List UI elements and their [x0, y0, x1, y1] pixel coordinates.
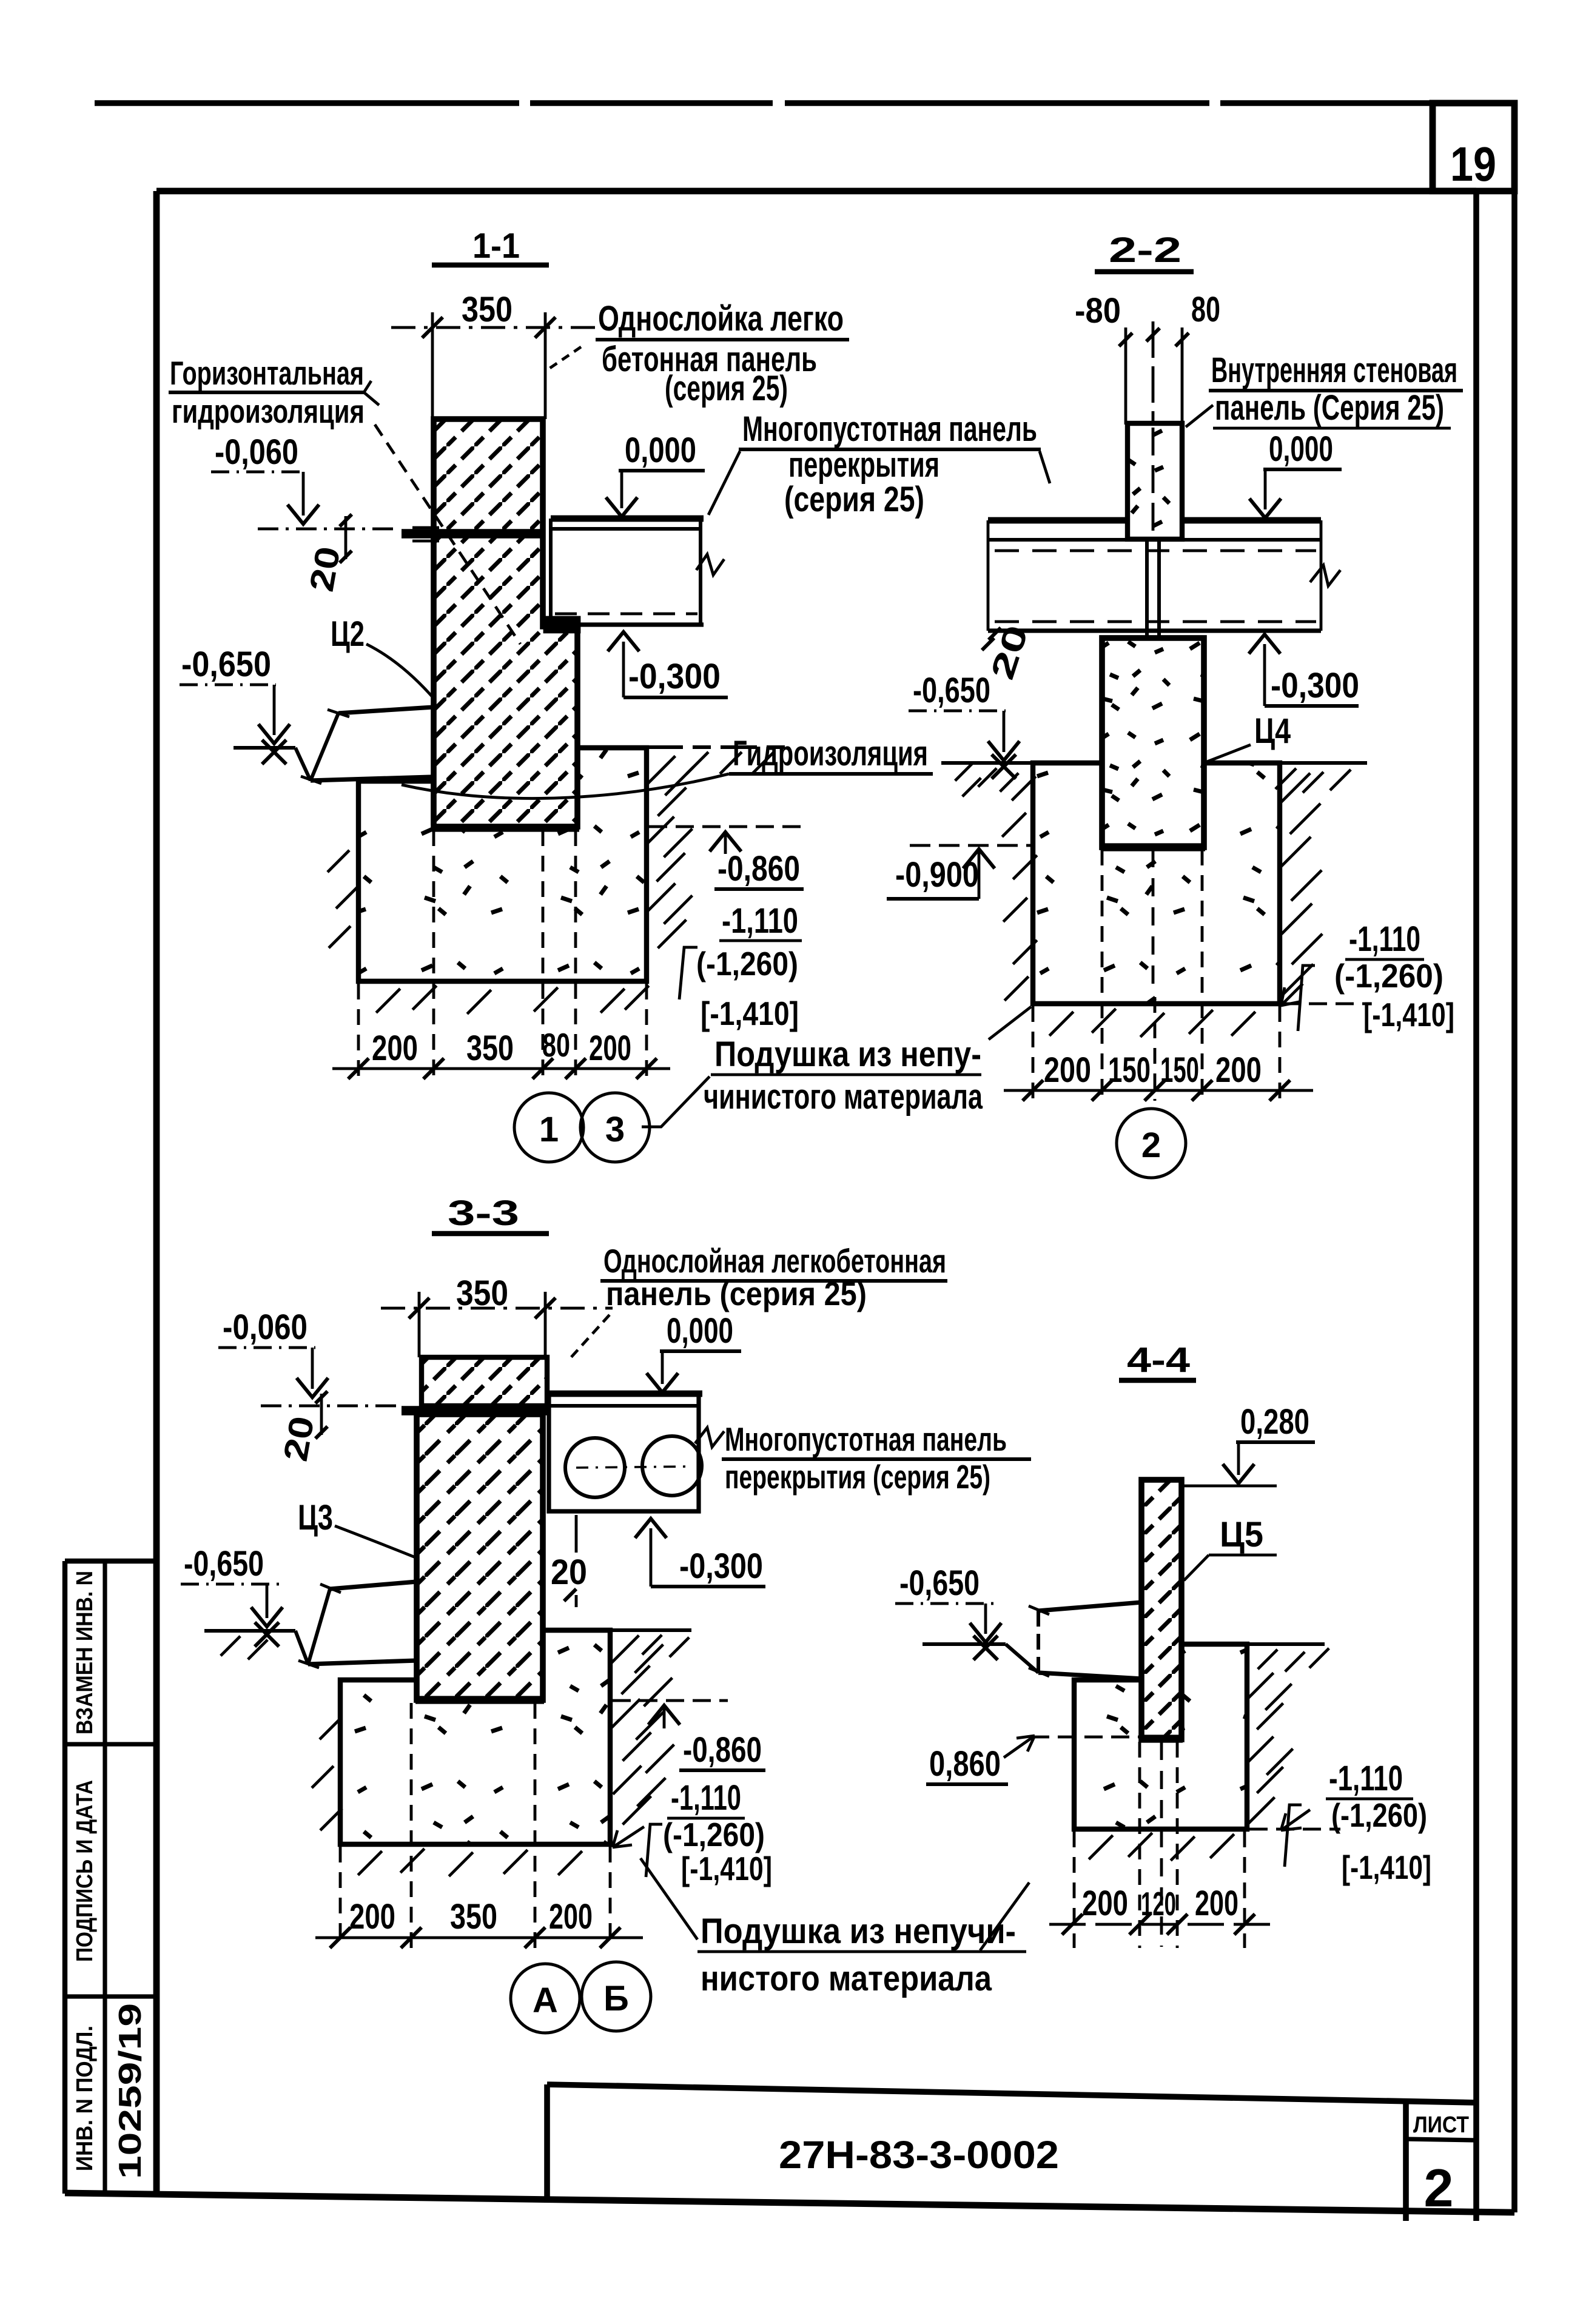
panel axis dashed through wall (2-2) — [1152, 428, 1155, 537]
level underline 0,000 (3-3) — [660, 1349, 741, 1353]
ground hatch left (2-2) — [955, 762, 974, 781]
svg-text:[-1,410]: [-1,410] — [1342, 1849, 1431, 1886]
level arrow -0,060 (1-1) — [287, 505, 319, 524]
section title 2-2 underline — [1095, 269, 1194, 274]
svg-text:200: 200 — [372, 1029, 418, 1068]
wall panel upper speckle (2-2) — [1128, 423, 1182, 539]
ext dashed d (4-4) — [1243, 1832, 1246, 1948]
svg-text:гидроизоляция: гидроизоляция — [172, 392, 365, 430]
leader Подушка (3-3) — [640, 1858, 697, 1939]
svg-text:Многопустотная панель: Многопустотная панель — [725, 1420, 1007, 1458]
joint tick lower (1-1 20) — [412, 540, 439, 543]
svg-text:Однослойная легкобетонная: Однослойная легкобетонная — [603, 1242, 946, 1280]
leader Подушка right (to 4-4) — [980, 1882, 1029, 1950]
svg-text:нистого материала: нистого материала — [701, 1959, 992, 1998]
label Ц5 line — [1209, 1554, 1277, 1557]
level drop -0,060 (3-3) — [311, 1348, 314, 1389]
svg-text:20: 20 — [551, 1553, 587, 1592]
axis circle 1 — [514, 1093, 583, 1162]
pit hatch right (2-2) — [1280, 773, 1310, 804]
leader Подушка (1-1) — [642, 1076, 710, 1127]
leader to panel (2-2) — [1186, 405, 1213, 427]
foundation outline (4-4) — [1074, 1644, 1247, 1829]
dim tick right (1-1 350) — [535, 317, 556, 338]
ext dashed d (1-1) — [574, 830, 577, 1081]
svg-text:-1,110: -1,110 — [1349, 919, 1420, 959]
svg-text:ПОДПИСЬ И ДАТА: ПОДПИСЬ И ДАТА — [72, 1780, 98, 1962]
svg-text:80: 80 — [542, 1026, 570, 1064]
slab right edge (2-2) — [1320, 520, 1323, 631]
level arrow 0,000 (2-2) — [1249, 499, 1281, 518]
svg-text:ЛИСТ: ЛИСТ — [1413, 2112, 1469, 2138]
stamp column outer left line — [62, 1561, 67, 2194]
sheet-no box left line — [1403, 2101, 1409, 2221]
svg-text:-0,300: -0,300 — [1271, 666, 1359, 705]
bracket mark (2-2 levels) — [1298, 966, 1315, 1031]
ext dashed a (2-2) — [1032, 1006, 1035, 1101]
hollow circle a (3-3) — [565, 1438, 625, 1497]
svg-text:[-1,410]: [-1,410] — [1363, 996, 1454, 1033]
blind-area bottom edge (4-4) — [1038, 1673, 1141, 1679]
ext dashed c (3-3) — [534, 1703, 537, 1948]
ext dashed b (3-3) — [410, 1703, 413, 1948]
leader Ц5 — [1184, 1555, 1209, 1580]
wall block lower (2-2) — [1102, 638, 1204, 847]
wall bottom thick line (3-3) — [415, 1696, 544, 1704]
level drop 0,000 (2-2) — [1264, 469, 1267, 509]
ext dashed e (1-1) — [645, 984, 648, 1081]
svg-text:200: 200 — [589, 1029, 631, 1068]
dim ticks bottom (1-1) — [348, 1058, 369, 1079]
svg-text:200: 200 — [1195, 1884, 1239, 1923]
svg-text:3-3: 3-3 — [448, 1194, 519, 1233]
level underline -0,860 (1-1) — [714, 887, 804, 891]
leader Подушка right (to 2-2) — [989, 1007, 1031, 1039]
svg-text:350: 350 — [466, 1029, 514, 1068]
svg-text:Внутренняя стеновая: Внутренняя стеновая — [1211, 351, 1457, 390]
extension right (3-3) — [544, 1292, 547, 1357]
dim line 350 (3-3) — [381, 1307, 613, 1310]
pit hatch left (3-3) — [320, 1718, 341, 1739]
blind-area left edge (3-3) — [308, 1589, 330, 1664]
hydro-isolation band (1-1) — [402, 529, 545, 539]
svg-text:Однослойка легко: Однослойка легко — [598, 299, 844, 338]
tick for 20 (2-2) — [989, 628, 1001, 640]
level arrow -0,300 (1-1) — [608, 632, 639, 651]
slab dashed line a (2-2) — [995, 549, 1316, 552]
underline Многопустотная (3-3) — [722, 1457, 1031, 1461]
axis circle А — [511, 1964, 580, 2033]
svg-text:(серия 25): (серия 25) — [665, 369, 788, 408]
level underline -0,300 (2-2) — [1265, 704, 1359, 708]
level dashes -0,860 (3-3) — [613, 1699, 728, 1702]
leader Гидроизоляция — [402, 774, 729, 798]
level arrow -0,650 (3-3) — [251, 1607, 283, 1627]
stamp column top line — [65, 1559, 156, 1563]
level arrow -1,110 (2-2) — [1281, 984, 1303, 1006]
svg-text:Б: Б — [603, 1979, 629, 2018]
leader Ц4 — [1207, 745, 1251, 762]
svg-text:350: 350 — [450, 1897, 497, 1936]
ext dashed d (3-3) — [609, 1847, 612, 1948]
svg-text:0,000: 0,000 — [625, 431, 696, 470]
level underline -0,650 (4-4) — [895, 1602, 1000, 1605]
ground line right (3-3) — [610, 1628, 691, 1632]
outer right border line — [1511, 103, 1517, 2212]
svg-text:20: 20 — [276, 1413, 321, 1464]
leader Ц2 — [366, 644, 432, 696]
axis circle Б — [582, 1962, 651, 2031]
underline Однослойная (3-3) — [600, 1279, 947, 1283]
ground line left (2-2) — [941, 761, 1102, 765]
floor slab second line (1-1) — [551, 527, 701, 531]
level arrow 0,000 (1-1) — [606, 497, 637, 517]
wall Ц5 hatched body (4-4) — [1141, 1480, 1181, 1739]
svg-text:-1,110: -1,110 — [1329, 1759, 1403, 1798]
wall cap hatched (3-3) — [422, 1357, 547, 1406]
level drop -0,650 (2-2) — [1003, 711, 1006, 752]
ground hatch right (1-1) — [687, 752, 708, 774]
level arrow 0,280 (4-4) — [1223, 1464, 1254, 1483]
blind-area top edge (1-1) — [338, 707, 433, 713]
dim ticks bottom (2-2) — [1023, 1080, 1043, 1101]
wall top level line (4-4) — [1183, 1485, 1277, 1488]
level drop 0,000 (3-3) — [661, 1351, 664, 1384]
level line -0,060 (1-1) — [258, 528, 400, 531]
dim tick left (3-3) — [409, 1298, 429, 1318]
extension line left (1-1 350) — [431, 312, 434, 419]
level riser -0,300 (2-2) — [1263, 644, 1266, 706]
level riser -0,300 (3-3) — [650, 1528, 653, 1587]
svg-text:150: 150 — [1108, 1050, 1151, 1090]
svg-text:20: 20 — [302, 543, 348, 594]
slab top line (2-2) — [988, 517, 1321, 524]
pit hatch right (3-3) — [611, 1636, 639, 1664]
tick pair for 20 (3-3) — [320, 1394, 323, 1435]
hollow circle b (3-3) — [642, 1436, 702, 1496]
svg-text:350: 350 — [462, 290, 513, 329]
svg-text:-0,900: -0,900 — [895, 855, 979, 895]
extension left (3-3) — [418, 1292, 421, 1357]
svg-text:Горизонтальная: Горизонтальная — [170, 354, 364, 392]
svg-text:-0,860: -0,860 — [718, 849, 800, 888]
svg-text:200: 200 — [549, 1897, 593, 1936]
pit hatch left (1-1) — [328, 850, 349, 872]
underline Гидроизоляция — [729, 772, 933, 776]
svg-text:0,860: 0,860 — [929, 1744, 1001, 1784]
svg-text:Многопустотная панель: Многопустотная панель — [742, 409, 1037, 449]
svg-text:0,000: 0,000 — [667, 1311, 733, 1351]
level underline -0,060 (1-1) — [211, 471, 306, 474]
level drop -0,650 (1-1) — [273, 685, 276, 735]
blind-area top edge (4-4) — [1038, 1602, 1141, 1611]
svg-text:2: 2 — [1141, 1126, 1161, 1165]
svg-text:80: 80 — [1191, 290, 1220, 329]
underline панель (Серия 25) — [1213, 427, 1451, 430]
ground cross mark (1-1) — [262, 740, 286, 764]
joint lines (3-3) — [575, 1515, 578, 1553]
level dashes 0,860 (4-4) — [1031, 1736, 1140, 1739]
svg-text:Ц5: Ц5 — [1220, 1515, 1263, 1554]
foundation outline (3-3) — [340, 1630, 610, 1844]
panel axis line left (2-2) — [1124, 327, 1128, 425]
svg-text:200: 200 — [1082, 1884, 1128, 1923]
leader dashes (3-3 panel) — [569, 1315, 610, 1360]
top separator dashed line — [95, 100, 1433, 106]
ext dashed e (2-2) — [1279, 1006, 1282, 1101]
svg-text:перекрытия (серия 25): перекрытия (серия 25) — [725, 1458, 990, 1496]
ext dashed c (2-2) — [1154, 997, 1157, 1101]
floor slab right edge (1-1) — [699, 519, 702, 623]
underfoundation hatch (3-3) — [358, 1851, 382, 1875]
wall Ц2 hatched body — [434, 419, 577, 827]
ext dashed c (1-1) — [542, 830, 545, 1081]
level underline 0,280 (4-4) — [1236, 1440, 1315, 1444]
svg-text:перекрытия: перекрытия — [788, 445, 939, 485]
leader right Многопустотная (centre) — [1040, 451, 1050, 483]
slab outline (3-3) — [549, 1394, 699, 1511]
svg-text:Ц4: Ц4 — [1254, 711, 1291, 751]
level underline -0,300 (3-3) — [651, 1585, 765, 1588]
level underline -1,110 (4-4) — [1326, 1798, 1413, 1801]
svg-text:200: 200 — [349, 1897, 395, 1936]
floor slab left joint (1-1) — [549, 519, 553, 625]
ext dashed b (4-4) — [1138, 1742, 1141, 1948]
bracket mark (1-1 levels) — [679, 947, 697, 999]
ground hatch right (2-2) — [1275, 768, 1296, 789]
axis circle 2 — [1117, 1109, 1186, 1178]
section title 3-3 underline — [432, 1231, 549, 1236]
slab joint verticals (2-2) — [1145, 540, 1149, 636]
svg-text:А: А — [533, 1981, 558, 2020]
level underline -0,860 (3-3) — [679, 1768, 765, 1772]
bracket mark (3-3 levels) — [646, 1824, 662, 1877]
bracket mark (4-4 levels) — [1285, 1805, 1302, 1867]
dim line bottom (1-1) — [332, 1067, 670, 1070]
wall panel upper white underlay (2-2) — [1128, 423, 1182, 539]
blind-area left edge (1-1) — [311, 713, 338, 781]
svg-text:2-2: 2-2 — [1109, 230, 1181, 270]
ground hatch right (4-4) — [1258, 1650, 1277, 1669]
section title 4-4 underline — [1119, 1378, 1196, 1383]
drawing frame right inner border — [1473, 191, 1479, 2221]
svg-text:-0,650: -0,650 — [913, 671, 990, 710]
ground break diagonal (3-3) — [295, 1631, 308, 1664]
leader arrow 0,860 (4-4) — [1004, 1736, 1035, 1758]
svg-text:120: 120 — [1141, 1885, 1176, 1923]
foundation speckle (2-2) — [1035, 765, 1277, 1001]
level underline -0,300 (1-1) — [623, 696, 728, 699]
dim line bottom (3-3) — [315, 1936, 643, 1939]
ground line right (4-4) — [1247, 1642, 1325, 1646]
underfoundation hatch (4-4) — [1089, 1835, 1113, 1859]
blind-area bottom edge (3-3) — [308, 1661, 417, 1664]
level underline -0,060 (3-3) — [218, 1346, 315, 1349]
circle axis dashes (3-3) — [576, 1466, 691, 1468]
wall bottom thick line (1-1) — [432, 824, 579, 831]
underline Подушка (3-3) — [697, 1950, 1026, 1953]
svg-text:(серия 25): (серия 25) — [784, 480, 924, 519]
svg-text:10259/19: 10259/19 — [113, 2003, 148, 2179]
level drop -0,650 (4-4) — [984, 1604, 987, 1634]
axis ticks (2-2) — [1119, 333, 1132, 346]
svg-text:4-4: 4-4 — [1127, 1340, 1190, 1380]
dim tick left (1-1 350) — [422, 317, 443, 338]
svg-text:ИНВ. N ПОДЛ.: ИНВ. N ПОДЛ. — [72, 2026, 98, 2171]
level arrow -1,410 (3-3) — [613, 1827, 644, 1847]
level underline -1,110 (3-3) — [667, 1817, 745, 1820]
ground cross mark (2-2) — [992, 754, 1016, 779]
svg-text:панель (серия 25): панель (серия 25) — [606, 1275, 867, 1312]
svg-text:-0,060: -0,060 — [215, 432, 298, 472]
slab dashed line b (2-2) — [995, 620, 1316, 623]
ext dashed a (1-1) — [357, 984, 360, 1081]
underline Однослойка легко — [596, 338, 849, 341]
level arrow -0,060 (3-3) — [297, 1378, 328, 1397]
svg-text:200: 200 — [1044, 1050, 1091, 1090]
pit hatch right (1-1) — [647, 756, 676, 785]
level drop 0,000 (1-1) — [620, 471, 623, 508]
floor slab bottom line (1-1) — [545, 622, 704, 626]
level drop -0,060 (1-1) — [302, 472, 305, 516]
pit hatch left (2-2) — [1012, 776, 1036, 801]
svg-text:150: 150 — [1160, 1050, 1199, 1090]
ground line left (3-3) — [204, 1629, 295, 1633]
svg-text:-0,060: -0,060 — [223, 1308, 308, 1347]
level underline 0,000 (2-2) — [1263, 468, 1342, 471]
underline Многопустотная (centre) — [739, 448, 1041, 451]
svg-text:панель (Серия 25): панель (Серия 25) — [1215, 388, 1444, 428]
level arrow -0,650 (2-2) — [988, 741, 1020, 761]
svg-text:чинистого материала: чинистого материала — [704, 1077, 983, 1117]
svg-text:3: 3 — [605, 1110, 625, 1149]
svg-text:-80: -80 — [1075, 291, 1121, 331]
svg-text:[-1,410]: [-1,410] — [681, 1850, 772, 1887]
dim ticks bottom (3-3) — [330, 1927, 351, 1948]
ext dashed a (4-4) — [1073, 1832, 1076, 1948]
svg-text:Подушка из непу-: Подушка из непу- — [714, 1035, 981, 1074]
ground line right (1-1) — [647, 745, 795, 749]
stamp column inner divider line — [103, 1561, 107, 2194]
level dashes -0,900 (2-2) — [910, 844, 1031, 847]
foundation speckle (3-3) — [343, 1633, 608, 1842]
svg-text:(-1,260): (-1,260) — [1331, 1796, 1427, 1834]
dim line 350 (1-1) — [391, 326, 610, 329]
svg-text:200: 200 — [1215, 1050, 1262, 1090]
svg-text:-0,860: -0,860 — [683, 1730, 762, 1770]
level underline -0,900 (2-2) — [887, 897, 979, 901]
stamp cell divider 1 — [65, 1742, 156, 1746]
slab bottom line (2-2) — [988, 628, 1321, 633]
svg-text:-0,300: -0,300 — [628, 657, 721, 696]
panel axis line mid (2-2) — [1152, 321, 1155, 541]
ground break diagonal (4-4) — [1006, 1644, 1038, 1673]
ground line left (4-4) — [923, 1642, 1006, 1646]
level underline 0,000 (1-1) — [619, 469, 705, 472]
axis circle 3 — [580, 1093, 650, 1162]
svg-text:-0,300: -0,300 — [679, 1547, 763, 1586]
svg-text:Подушка из непучи-: Подушка из непучи- — [701, 1912, 1016, 1951]
level drop 0,280 (4-4) — [1237, 1442, 1240, 1475]
underline Внутренняя стеновая — [1209, 389, 1463, 392]
wall centre dashed (4-4) — [1160, 1742, 1163, 1947]
level dashes -0,860 (1-1) — [649, 825, 807, 828]
stamp cell divider 2 — [65, 1994, 156, 1998]
floor slab inner dashed line (1-1) — [555, 613, 697, 616]
level underline -0,650 (2-2) — [909, 710, 1006, 713]
level underline -0,650 (3-3) — [181, 1583, 279, 1586]
svg-text:0,000: 0,000 — [1269, 429, 1333, 469]
slab break mark right (2-2) — [1310, 565, 1340, 586]
ext dashed b (2-2) — [1101, 850, 1104, 1101]
arrowhead Горизонтальная — [364, 381, 379, 405]
foundation outline (1-1) — [358, 748, 647, 981]
dim ticks bottom (4-4) — [1062, 1914, 1083, 1935]
wall bottom thick line (4-4) — [1140, 1735, 1183, 1742]
level arrow -0,300 (3-3) — [635, 1519, 667, 1538]
ground hatch right (3-3) — [642, 1635, 662, 1654]
leader to wall top (1-1 panel) — [549, 347, 581, 369]
ground hatch left (3-3) — [221, 1636, 240, 1656]
drawing frame top border — [156, 188, 1476, 195]
level arrow -0,860 (1-1) — [710, 832, 741, 851]
sheet bottom border line — [65, 2193, 1514, 2212]
title block top line — [547, 2084, 1476, 2103]
level arrow -0,900 (2-2) — [963, 849, 995, 868]
extension line right (1-1 350) — [544, 312, 547, 419]
svg-text:-0,650: -0,650 — [184, 1544, 264, 1583]
wall bottom thick line (2-2) — [1101, 843, 1205, 851]
ground line right (2-2) — [1204, 761, 1367, 765]
svg-text:-1,110: -1,110 — [671, 1778, 741, 1818]
svg-text:Гидроизоляция: Гидроизоляция — [733, 734, 928, 773]
level arrow -0,650 (1-1) — [258, 724, 290, 744]
wall centre dashed (2-2) — [1152, 849, 1155, 995]
blind-area left edge (4-4) — [1037, 1611, 1040, 1673]
level dashes -1,110 (2-2) — [1282, 1002, 1370, 1006]
joint tick (3-3) — [564, 1589, 576, 1601]
level line -0,060 (3-3) — [261, 1405, 400, 1408]
slab left edge (2-2) — [987, 520, 990, 631]
svg-text:1: 1 — [539, 1110, 559, 1149]
blind-area top edge (3-3) — [330, 1582, 417, 1589]
level drop -0,650 (3-3) — [266, 1584, 269, 1618]
svg-text:Ц3: Ц3 — [298, 1498, 333, 1537]
svg-text:2: 2 — [1424, 2158, 1454, 2218]
level arrow 0,000 (3-3) — [647, 1373, 678, 1392]
svg-text:-0,650: -0,650 — [181, 645, 271, 684]
foundation speckle (4-4) — [1077, 1647, 1245, 1827]
svg-text:ВЗАМЕН ИНВ. N: ВЗАМЕН ИНВ. N — [72, 1571, 98, 1735]
level underline -1,110 (2-2) — [1345, 958, 1424, 961]
svg-text:-1,110: -1,110 — [722, 901, 798, 941]
floor slab top line (1-1) — [551, 516, 704, 522]
slab break mark (3-3) — [695, 1428, 724, 1447]
ext dashed a (3-3) — [339, 1847, 342, 1948]
svg-text:[-1,410]: [-1,410] — [701, 995, 799, 1032]
blind-area bottom edge (1-1) — [311, 777, 432, 781]
level underline -1,110 (1-1) — [719, 939, 802, 942]
svg-text:19: 19 — [1450, 137, 1496, 191]
panel axis line right (2-2) — [1181, 327, 1184, 425]
level arrow -0,300 (2-2) — [1249, 634, 1280, 654]
svg-text:(-1,260): (-1,260) — [663, 1816, 765, 1853]
underfoundation hatch (1-1) — [376, 989, 400, 1013]
underline Подушка (1-1) — [711, 1073, 981, 1076]
ground line left (1-1) — [234, 746, 295, 750]
svg-text:0,280: 0,280 — [1240, 1402, 1309, 1442]
dim line bottom (2-2) — [1004, 1089, 1313, 1092]
